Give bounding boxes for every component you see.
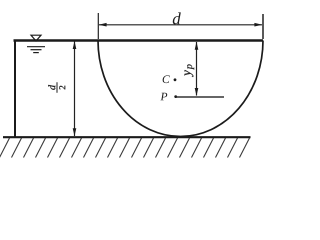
left wall xyxy=(14,40,16,138)
d dimension right arrowhead xyxy=(254,23,262,27)
yp label xyxy=(185,64,195,77)
P horizontal line xyxy=(177,96,225,98)
d/2 fraction label xyxy=(48,82,65,92)
yp bottom arrowhead xyxy=(195,88,199,96)
water level symbol strokes xyxy=(27,47,45,53)
yp dimension line xyxy=(196,42,198,96)
semicircular gate (half-ellipse curve) xyxy=(98,41,263,137)
pressure point P label xyxy=(160,93,167,101)
d dimension left arrowhead xyxy=(99,23,107,27)
yp top arrowhead xyxy=(195,42,199,50)
d/2 dimension line xyxy=(74,42,76,137)
water level symbol triangle xyxy=(31,35,41,41)
d dimension line xyxy=(99,24,262,26)
d/2 bottom arrowhead xyxy=(73,128,77,136)
d dimension extension line left xyxy=(97,13,99,39)
centroid C dot xyxy=(174,78,177,81)
d dimension extension line right xyxy=(262,14,264,39)
ground hatching xyxy=(0,138,250,158)
d label xyxy=(173,12,181,24)
centroid C label xyxy=(163,75,170,83)
ground line xyxy=(3,136,251,138)
pressure point P dot xyxy=(174,95,177,98)
water surface line xyxy=(14,39,264,41)
d/2 top arrowhead xyxy=(73,41,77,49)
